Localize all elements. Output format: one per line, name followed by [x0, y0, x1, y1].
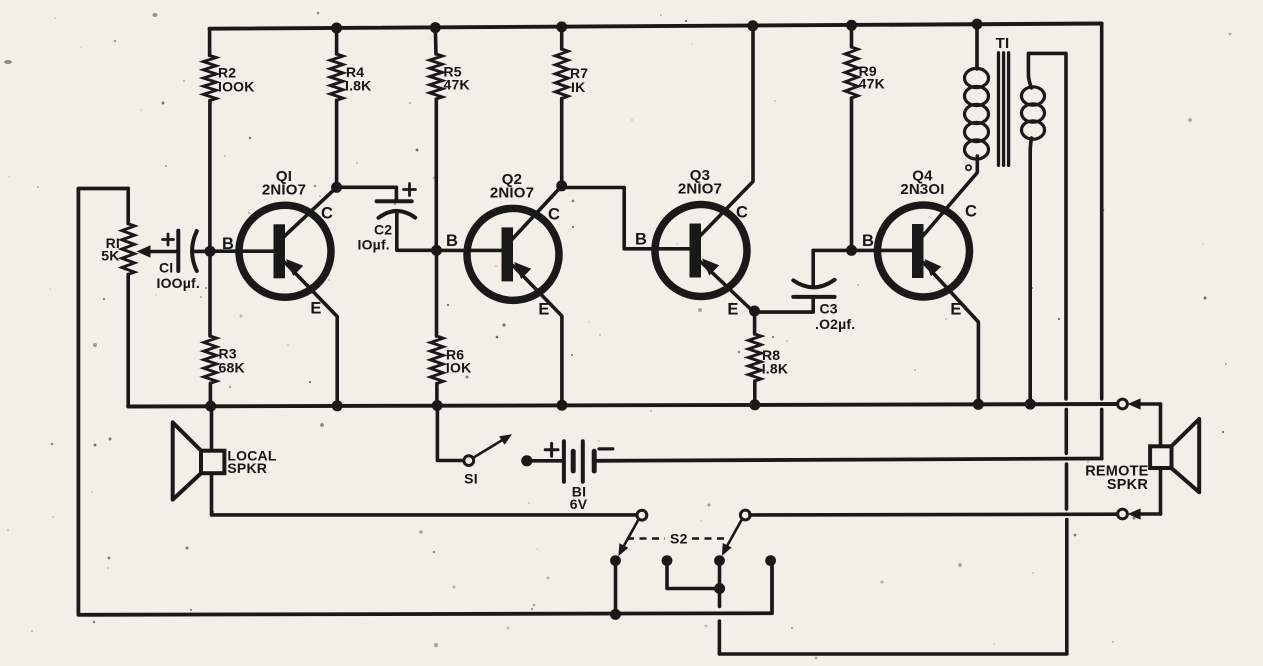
svg-text:B: B [635, 231, 647, 249]
label Q4 base B [862, 232, 874, 250]
remote speaker REMOTE SPKR [1085, 404, 1199, 514]
label Q2 base B [446, 232, 458, 250]
node Q2 base / R5 / R6 junction [431, 245, 442, 256]
wire Q4 collector [922, 156, 978, 238]
node ground rail at Q4 emitter [973, 399, 984, 410]
node S2 contact 4 [765, 555, 776, 566]
switch S2 pole 1 [618, 510, 646, 556]
switch S1 [437, 406, 512, 487]
svg-text:B: B [222, 235, 234, 253]
node R5 top rail junction [430, 22, 441, 33]
wire T1 secondary top to S2 contact 3 (breaks at wire crossings) [720, 53, 1067, 654]
wire Q3 emitter [701, 259, 754, 313]
node Q3 emitter / C3 / R8 junction [749, 306, 760, 317]
node ground rail at R6 / S1 [432, 400, 443, 411]
label Q1 collector C [321, 205, 333, 223]
svg-text:68K: 68K [219, 359, 245, 375]
wire Q1 collector [283, 187, 337, 237]
wire bottom ground rail [128, 404, 1118, 407]
node remote speaker bottom terminal [1118, 509, 1128, 519]
wire Q2 emitter [513, 262, 562, 405]
svg-text:IOOµf.: IOOµf. [157, 275, 201, 291]
svg-text:C: C [965, 203, 977, 221]
wire Q1 collector to C2 [337, 187, 397, 199]
label Q4 emitter E [950, 301, 961, 319]
transistor Q4 2N301 [878, 168, 970, 298]
wire Q2 base [437, 249, 502, 253]
svg-text:2N3OI: 2N3OI [900, 181, 944, 198]
wire Q4 emitter [924, 259, 979, 404]
node ground rail at R8 [749, 399, 760, 410]
svg-text:C: C [321, 205, 333, 223]
wire battery negative run [596, 459, 1102, 461]
svg-text:IOµf.: IOµf. [358, 237, 390, 253]
label Q2 emitter E [538, 301, 549, 319]
node Q4 base / R9 junction [846, 245, 857, 256]
wire Q1 base [210, 249, 274, 253]
wire Q4 base [813, 249, 912, 253]
node Q2 collector / R7 junction [556, 180, 567, 191]
node S2 contact 3 [714, 555, 725, 566]
svg-text:47K: 47K [859, 76, 885, 92]
svg-text:6V: 6V [570, 496, 588, 512]
svg-text:47K: 47K [444, 77, 470, 93]
resistor R9 47K [845, 25, 885, 250]
wire Q1 emitter [285, 259, 337, 406]
node ground rail at Q1 emitter [332, 400, 343, 411]
svg-text:E: E [310, 300, 321, 318]
wire Q2 collector to Q3 base [562, 188, 690, 249]
node ground rail at Q2 emitter [556, 400, 567, 411]
wire Q2 collector [511, 186, 562, 241]
svg-text:E: E [538, 301, 549, 319]
svg-text:SPKR: SPKR [227, 460, 267, 476]
node T1 primary top rail junction [972, 19, 983, 30]
svg-text:C3: C3 [820, 301, 838, 317]
svg-text:I.8K: I.8K [762, 361, 788, 377]
resistor R6 10K [430, 250, 471, 405]
svg-text:IK: IK [571, 79, 585, 95]
svg-text:I.8K: I.8K [345, 78, 371, 94]
node ground rail at R3 [205, 401, 216, 412]
capacitor C2 10µf (electrolytic) [358, 184, 437, 253]
resistor R3 68K [204, 251, 245, 406]
label Q3 collector C [736, 204, 748, 222]
wire remote speaker lower lead (arrow into terminal) [1128, 508, 1161, 519]
svg-text:2NIO7: 2NIO7 [262, 181, 306, 198]
svg-text:CI: CI [159, 260, 173, 276]
node ground rail at T1 secondary [1025, 399, 1036, 410]
node R4 top rail junction [331, 23, 342, 34]
node R9 top rail junction [846, 20, 857, 31]
node S2 contact 1 bottom junction [610, 609, 621, 620]
wire right rail (top rail to battery negative, break at ground rail crossing) [1100, 24, 1104, 459]
resistor R4 1.8K [330, 28, 371, 187]
label Q2 collector C [548, 206, 560, 224]
local speaker LOCAL SPKR [173, 406, 638, 515]
node S2 contact 2/3 junction [714, 583, 725, 594]
svg-text:TI: TI [996, 35, 1010, 52]
label S2 with dashed linkage [627, 531, 728, 547]
svg-text:IOK: IOK [446, 360, 472, 376]
node S2 contact 2 [662, 555, 673, 566]
node S2 contact 1 [610, 555, 621, 566]
resistor R7 1K [555, 27, 588, 186]
transistor Q1 2N107 [239, 168, 331, 297]
svg-text:IOOK: IOOK [218, 79, 255, 95]
svg-text:C: C [548, 206, 560, 224]
svg-text:B: B [862, 232, 874, 250]
svg-text:E: E [727, 301, 738, 319]
node Q1 base / R2 / R3 junction [205, 246, 216, 257]
svg-text:S2: S2 [670, 531, 688, 547]
wire S2 contact 2 to contact-3 vertical [667, 561, 720, 589]
svg-text:2NIO7: 2NIO7 [678, 181, 722, 198]
node Q1 collector / R4 / C2 junction [331, 182, 342, 193]
label Q4 collector C [965, 203, 977, 221]
label Q1 emitter E [310, 300, 321, 318]
capacitor C1 100µf (electrolytic) [157, 231, 211, 291]
svg-text:5K: 5K [101, 248, 119, 264]
svg-text:E: E [950, 301, 961, 319]
switch S2 pole 2 [722, 510, 750, 556]
label Q3 emitter E [727, 301, 738, 319]
resistor R5 47K [430, 28, 470, 251]
wire top supply rail [210, 24, 1102, 29]
wire left feedback rail (R1 top to S2 contacts 1 and 4) [78, 189, 772, 615]
svg-text:.O2µf.: .O2µf. [815, 316, 855, 332]
transistor Q3 2N107 [655, 167, 747, 297]
label Q1 base B [222, 235, 234, 253]
battery B1 6V [521, 441, 613, 512]
transformer T1 [965, 24, 1066, 405]
label Q3 base B [635, 231, 647, 249]
potentiometer R1 5K [101, 189, 178, 407]
wire S2 contact 3 down (break at crossing) [718, 561, 722, 654]
resistor R2 100K [203, 29, 254, 252]
svg-text:SPKR: SPKR [1107, 477, 1148, 493]
node R7 top rail junction [556, 21, 567, 32]
svg-text:SI: SI [464, 471, 478, 487]
wire S2 contact 1 to bottom wire [614, 561, 618, 615]
wire S2 pole 2 to remote speaker [750, 512, 1118, 516]
node remote speaker top terminal [1118, 399, 1128, 409]
resistor R8 1.8K [748, 311, 788, 405]
wire ground rail to remote speaker (arrow into terminal) [1128, 398, 1161, 409]
wire Q3 collector [699, 26, 753, 237]
capacitor C3 .02µf [757, 250, 855, 332]
svg-text:B: B [446, 232, 458, 250]
svg-text:2NIO7: 2NIO7 [490, 184, 534, 201]
node Q3 collector top rail junction [747, 20, 758, 31]
transistor Q2 2N107 [467, 171, 559, 301]
svg-text:C2: C2 [374, 222, 392, 238]
svg-text:C: C [736, 204, 748, 222]
